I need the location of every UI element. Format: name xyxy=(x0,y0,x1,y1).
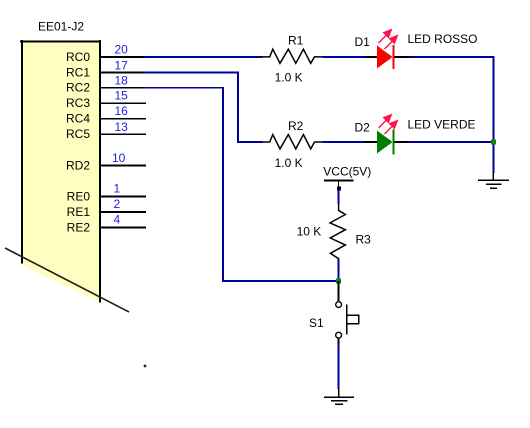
pin RC3, pin number 15 xyxy=(66,89,146,111)
svg-text:1: 1 xyxy=(114,182,121,196)
diagonal tear line xyxy=(5,248,129,312)
wire RC2 vertical down xyxy=(222,87,224,282)
svg-text:1.0 K: 1.0 K xyxy=(275,156,303,170)
wire R1 to D1 xyxy=(323,56,366,58)
svg-text:LED ROSSO: LED ROSSO xyxy=(408,32,478,46)
svg-text:RE1: RE1 xyxy=(67,205,91,219)
svg-text:S1: S1 xyxy=(309,316,324,330)
junction at R3 and switch xyxy=(336,279,341,284)
svg-text:RC0: RC0 xyxy=(66,50,90,64)
wire D2 to ground rail xyxy=(409,141,494,143)
pin RC0, pin number 20 xyxy=(66,43,146,64)
pin RC4, pin number 16 xyxy=(66,104,146,126)
pin RC5, pin number 13 xyxy=(66,120,146,141)
pin RE0, pin number 1 xyxy=(67,182,146,204)
wire RC1 to R2 xyxy=(238,141,263,143)
LED D2 xyxy=(365,114,409,155)
svg-text:D1: D1 xyxy=(355,35,371,49)
ground GND2 xyxy=(324,389,354,405)
svg-text:15: 15 xyxy=(115,89,129,103)
resistor R3 xyxy=(330,203,345,260)
wire S1 to ground xyxy=(338,345,340,389)
wire ground rail vertical xyxy=(493,56,495,173)
svg-text:20: 20 xyxy=(115,43,129,57)
svg-text:RC4: RC4 xyxy=(66,112,90,126)
pin RE2, pin number 4 xyxy=(67,213,146,235)
LED D1 xyxy=(365,29,409,70)
svg-text:RD2: RD2 xyxy=(66,158,90,172)
pin RC1, pin number 17 xyxy=(66,59,146,80)
wire RC1 vertical down xyxy=(237,72,239,143)
svg-text:RC5: RC5 xyxy=(66,127,90,141)
wire VCC to R3 xyxy=(338,189,340,204)
svg-text:RC2: RC2 xyxy=(66,81,90,95)
svg-text:2: 2 xyxy=(114,197,121,211)
wire RC2 horizontal xyxy=(145,87,225,89)
power VCC(5V) xyxy=(324,180,354,190)
ground GND1 xyxy=(478,173,509,189)
resistor R2 xyxy=(262,135,323,149)
svg-text:1.0 K: 1.0 K xyxy=(275,70,303,84)
svg-text:13: 13 xyxy=(115,120,129,134)
svg-text:RC3: RC3 xyxy=(66,96,90,110)
svg-text:R1: R1 xyxy=(288,33,304,47)
wire R3 to junction xyxy=(338,259,340,281)
stray dot artifact xyxy=(144,365,147,368)
svg-text:D2: D2 xyxy=(355,121,371,135)
junction at D2 and ground rail xyxy=(491,140,496,145)
svg-text:10 K: 10 K xyxy=(297,225,322,239)
svg-text:EE01-J2: EE01-J2 xyxy=(38,20,84,34)
svg-text:R2: R2 xyxy=(288,119,304,133)
switch S1 xyxy=(336,281,359,346)
svg-text:VCC(5V): VCC(5V) xyxy=(323,165,371,179)
wire RC1 horizontal xyxy=(145,71,239,73)
wire R2 to D2 xyxy=(323,141,366,143)
svg-text:R3: R3 xyxy=(356,233,372,247)
svg-text:RE2: RE2 xyxy=(67,220,91,234)
svg-text:4: 4 xyxy=(114,213,121,227)
pin RE1, pin number 2 xyxy=(67,197,146,219)
pin RD2, pin number 10 xyxy=(66,151,146,173)
connector J2 EE01-J2 body xyxy=(20,40,101,303)
svg-text:LED VERDE: LED VERDE xyxy=(408,117,476,131)
wire RC2 to switch junction xyxy=(223,280,338,282)
svg-text:10: 10 xyxy=(112,151,126,165)
svg-text:17: 17 xyxy=(115,59,129,73)
svg-text:16: 16 xyxy=(115,104,129,118)
wire D1 to ground rail xyxy=(409,56,494,58)
svg-text:RE0: RE0 xyxy=(67,189,91,203)
svg-text:RC1: RC1 xyxy=(66,65,90,79)
pin RC2, pin number 18 xyxy=(66,74,146,95)
svg-text:18: 18 xyxy=(115,74,129,88)
resistor R1 xyxy=(262,49,323,63)
wire RC0 to R1 xyxy=(145,56,263,58)
